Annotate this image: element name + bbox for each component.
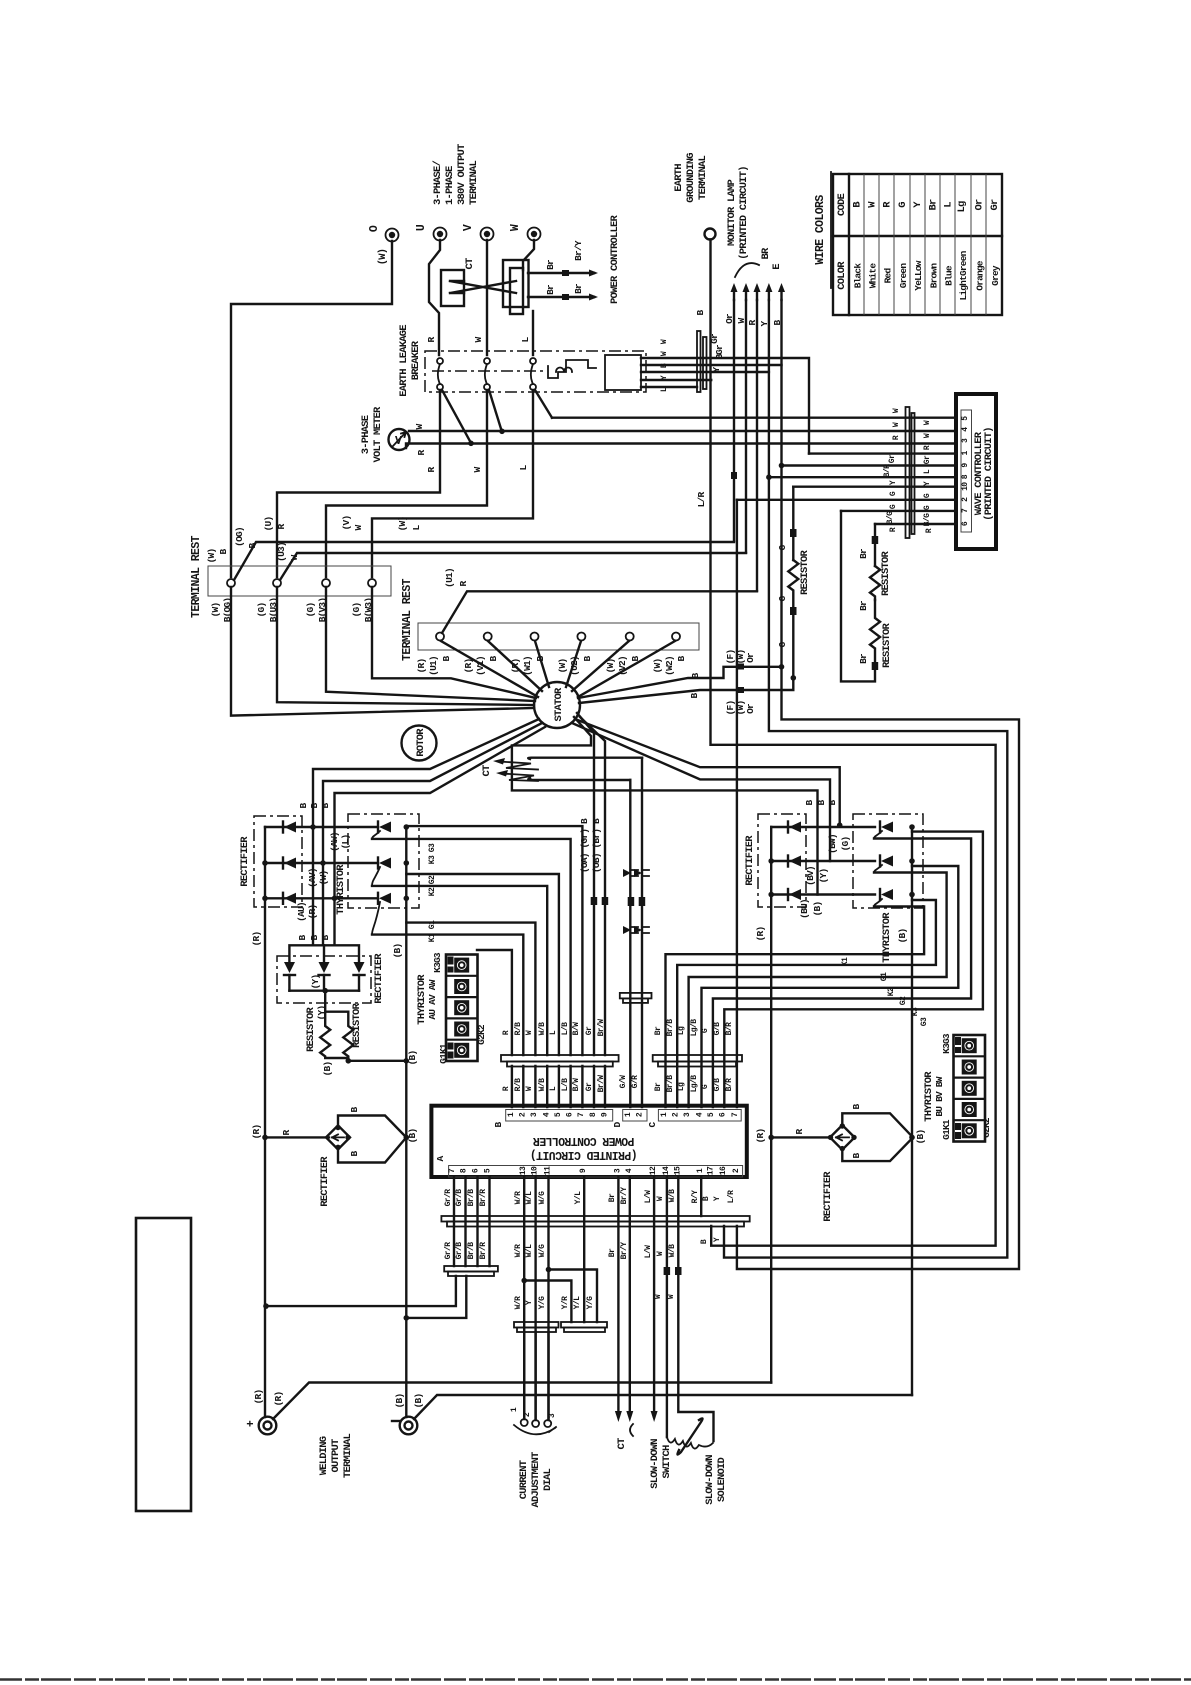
svg-text:Gr: Gr	[585, 1026, 594, 1035]
svg-text:COLOR: COLOR	[836, 261, 848, 290]
svg-text:1-PHASE: 1-PHASE	[444, 166, 456, 205]
svg-text:Br/R: Br/R	[479, 1242, 488, 1260]
svg-text:Brown: Brown	[929, 263, 940, 289]
connector cell 1	[454, 958, 469, 973]
terminal W	[528, 228, 541, 241]
svg-text:Grey: Grey	[990, 265, 1001, 286]
wire Br/Y pin4 to CT arrow	[629, 1177, 631, 1410]
stator winding leads to lugs	[441, 641, 538, 697]
wire V down to breaker	[486, 240, 488, 355]
wire CT G/R down to PCB D2	[641, 758, 643, 1107]
terminal rest 2 lug 2	[484, 633, 492, 641]
terminal O	[386, 229, 399, 242]
wave pin7 wire	[841, 510, 956, 512]
dial branch W/R to Y bar	[524, 1281, 571, 1323]
svg-text:15: 15	[674, 1166, 683, 1175]
field rectifier dash box	[277, 956, 371, 1003]
wave pin5 wire	[552, 417, 956, 419]
svg-text:EARTH: EARTH	[673, 164, 685, 192]
gate line G3 to PCB B6	[372, 839, 571, 1055]
svg-text:(B): (B)	[392, 944, 403, 959]
svg-text:B/R: B/R	[725, 1078, 734, 1091]
svg-text:3-PHASE: 3-PHASE	[360, 415, 372, 454]
svg-text:Lg/B: Lg/B	[690, 1075, 699, 1093]
svg-text:(L): (L)	[340, 835, 351, 850]
svg-text:(U3): (U3)	[276, 542, 287, 562]
svg-text:Lg: Lg	[956, 201, 968, 213]
svg-text:Lg/B: Lg/B	[690, 1019, 699, 1037]
svg-text:W/B: W/B	[668, 1189, 677, 1202]
thyristor connector K3G3 right squares	[954, 1035, 986, 1142]
wire O to terminal rest	[231, 241, 392, 577]
svg-text:(Y): (Y)	[316, 1006, 327, 1021]
svg-text:G/B: G/B	[713, 1078, 722, 1091]
resistor G zigzag	[788, 560, 798, 611]
svg-text:U: U	[415, 224, 428, 231]
diamond rectifier right R lead	[771, 1136, 829, 1138]
rectifier left dash box	[254, 816, 302, 907]
wire Y/L pin9	[583, 1177, 585, 1322]
connector cell 2	[454, 979, 469, 994]
svg-text:(AW): (AW)	[329, 832, 340, 852]
svg-text:W/B: W/B	[668, 1244, 677, 1257]
svg-text:(B): (B)	[915, 1130, 926, 1145]
current adjustment dial pins	[524, 1332, 548, 1419]
svg-text:TERMINAL: TERMINAL	[468, 160, 480, 205]
terminal rest 2 lug 5	[626, 633, 634, 641]
svg-text:K1: K1	[428, 933, 437, 942]
svg-text:Y/R: Y/R	[561, 1296, 570, 1309]
diamond right top loop	[842, 1113, 913, 1137]
svg-text:Br: Br	[858, 600, 869, 611]
svg-text:OUTPUT: OUTPUT	[330, 1439, 342, 1473]
svg-text:THYRISTOR: THYRISTOR	[335, 864, 347, 915]
wire (U1) R from lug1	[442, 591, 757, 633]
wave pin8 wire	[769, 476, 956, 478]
connector cell 3	[962, 1081, 977, 1096]
diamond rectifier left R lead	[265, 1136, 329, 1138]
svg-text:SWITCH: SWITCH	[661, 1445, 673, 1479]
wire monitor Y vertical to right side	[724, 300, 1007, 1258]
svg-text:(R): (R)	[307, 905, 318, 920]
wire W/B pin15 to solenoid	[678, 1177, 713, 1441]
blank note box left	[136, 1218, 191, 1511]
svg-text:Br/Y: Br/Y	[573, 240, 584, 261]
connector bar above PCB (B group)	[501, 1055, 619, 1062]
svg-text:(R): (R)	[755, 1129, 766, 1144]
wire breaker aux 5	[641, 386, 697, 388]
wire W phase down-left	[326, 390, 487, 577]
terminal rest 2 lug 1	[436, 633, 444, 641]
svg-text:K3: K3	[428, 855, 437, 864]
svg-text:Br: Br	[608, 1248, 617, 1257]
svg-text:W/G: W/G	[538, 1244, 547, 1257]
svg-text:380V OUTPUT: 380V OUTPUT	[456, 144, 468, 205]
svg-text:AU AV AW: AU AV AW	[427, 979, 438, 1019]
wire monitor W vertical	[745, 300, 747, 553]
svg-text:TERMINAL REST: TERMINAL REST	[190, 535, 203, 618]
svg-text:(W): (W)	[206, 549, 217, 564]
svg-text:Br/B: Br/B	[666, 1075, 675, 1093]
field rectifier bottom bus	[289, 990, 359, 992]
svg-text:Br/Y: Br/Y	[620, 1242, 629, 1260]
field diode 3	[354, 962, 365, 973]
terminal V	[481, 228, 494, 241]
stator lead to right rectifier BW	[575, 719, 840, 825]
diode D3 right rectifier	[771, 893, 875, 895]
wire from A bar to (R) bus	[266, 1276, 456, 1306]
field diode 2	[319, 962, 330, 973]
diamond right bottom loop	[842, 1137, 913, 1161]
wave pin10 wire to resistor chain	[793, 486, 956, 488]
wire lug1 TR1 to stator	[231, 587, 534, 716]
dial wires 13 10 11	[524, 1177, 548, 1420]
svg-text:CT: CT	[616, 1438, 628, 1450]
wave connector bars	[906, 407, 910, 538]
svg-text:Br: Br	[654, 1082, 663, 1091]
monitor lamp arc	[735, 263, 759, 277]
terminal rest 2 box	[418, 623, 699, 650]
svg-text:L: L	[943, 202, 955, 208]
thyristor S1 left	[379, 822, 391, 833]
svg-text:W/R: W/R	[514, 1296, 523, 1309]
svg-text:TERMINAL: TERMINAL	[697, 156, 709, 201]
svg-text:(BW): (BW)	[827, 834, 838, 854]
wire monitor B vertical to right side	[737, 300, 1019, 1269]
thyristor S1 right	[881, 822, 893, 833]
svg-text:(B): (B)	[407, 1051, 418, 1066]
svg-text:Gr/B: Gr/B	[455, 1242, 464, 1260]
CT secondary lines	[528, 758, 642, 759]
svg-text:BR: BR	[760, 247, 772, 260]
svg-text:13: 13	[519, 1166, 528, 1175]
svg-text:(B): (B)	[322, 1062, 333, 1077]
wire lug2 TR1 to stator	[277, 587, 534, 705]
svg-text:CODE: CODE	[836, 194, 848, 217]
svg-text:L/R: L/R	[727, 1190, 736, 1203]
breaker pole 1	[437, 358, 443, 364]
wire W pin14 to solenoid	[666, 1177, 668, 1437]
gate line G3 right (to PCB C1)	[666, 907, 925, 1108]
svg-text:Y/G: Y/G	[586, 1296, 595, 1309]
svg-text:BREAKER: BREAKER	[410, 340, 422, 380]
diamond left bottom loop	[338, 1137, 406, 1162]
stator	[534, 682, 580, 728]
connector cell 1	[962, 1038, 977, 1053]
svg-text:RECTIFIER: RECTIFIER	[822, 1171, 834, 1222]
svg-text:Gr: Gr	[888, 454, 897, 463]
svg-text:(G): (G)	[256, 603, 267, 618]
svg-text:(R): (R)	[755, 927, 766, 942]
svg-text:B/R: B/R	[725, 1022, 734, 1035]
resistor Br 1 zigzag	[870, 566, 880, 600]
thyristor left dash box	[348, 814, 419, 908]
connector cell 3	[454, 1000, 469, 1015]
svg-text:Red: Red	[883, 268, 894, 284]
PCB C pin strip	[658, 1110, 741, 1122]
svg-text:TERMINAL: TERMINAL	[342, 1434, 354, 1479]
wire L out of transformer to breaker	[532, 311, 534, 355]
A group connector bar	[444, 1266, 498, 1272]
monitor arrow Or	[733, 289, 735, 300]
svg-text:(BV): (BV)	[805, 866, 816, 886]
svg-text:Or: Or	[974, 199, 986, 211]
svg-text:Lg: Lg	[677, 1026, 686, 1035]
svg-text:(B): (B)	[394, 1394, 405, 1409]
svg-text:(W): (W)	[377, 249, 389, 266]
svg-text:BU BV BW: BU BV BW	[934, 1076, 945, 1116]
rectifier right dash box	[758, 814, 806, 907]
svg-text:(R): (R)	[251, 932, 262, 947]
svg-text:RECTIFIER: RECTIFIER	[239, 836, 251, 887]
PCB wires bar to board	[512, 1066, 605, 1107]
svg-text:G/B: G/B	[713, 1022, 722, 1035]
PCB A pin strip	[449, 1166, 743, 1178]
svg-text:SLOW-DOWN: SLOW-DOWN	[704, 1455, 716, 1505]
svg-text:16: 16	[719, 1166, 728, 1175]
wire (U3) W from lug2 to monitor W	[280, 553, 746, 580]
svg-text:+: +	[245, 1420, 258, 1427]
dial wiper arc	[514, 1425, 556, 1434]
svg-text:ROTOR: ROTOR	[415, 728, 427, 757]
wire R to PCB B1	[477, 950, 512, 1055]
stator lead to left rectifier AV	[323, 723, 542, 945]
svg-text:11: 11	[544, 1166, 553, 1175]
svg-text:Br: Br	[545, 284, 556, 295]
wire L phase down-left	[372, 390, 533, 577]
rotor	[402, 726, 437, 761]
svg-text:Gr: Gr	[989, 199, 1001, 211]
svg-text:STATOR: STATOR	[553, 687, 565, 722]
svg-text:(R): (R)	[251, 1125, 262, 1140]
wire U down to breaker	[429, 240, 440, 355]
terminal rest 2 lug 4	[577, 633, 585, 641]
svg-text:L/B: L/B	[561, 1022, 570, 1035]
wire breaker aux 2 (to monitor B)	[641, 364, 782, 366]
svg-text:W/L: W/L	[525, 1191, 534, 1204]
svg-text:K2: K2	[428, 887, 437, 896]
svg-text:K1: K1	[841, 957, 850, 966]
svg-text:W/G: W/G	[538, 1191, 547, 1204]
connector cell 4	[962, 1102, 977, 1117]
svg-text:(W): (W)	[557, 659, 568, 674]
gate line K1 right (bus tap to PCB C6)	[724, 832, 983, 1107]
junction dot BW	[837, 822, 843, 828]
wave pin2 wire	[737, 499, 956, 501]
CT coil zigzag arrows	[499, 762, 538, 770]
svg-text:(B): (B)	[812, 902, 823, 917]
svg-text:Br: Br	[608, 1193, 617, 1202]
resistor chain Br (wave pin6 to pin7)	[874, 524, 876, 566]
svg-text:VOLT METER: VOLT METER	[372, 406, 384, 463]
svg-text:G2: G2	[899, 996, 908, 1005]
svg-text:Br/R: Br/R	[479, 1189, 488, 1207]
svg-text:B/W: B/W	[572, 1078, 581, 1091]
svg-text:14: 14	[662, 1166, 671, 1175]
svg-text:Br/B: Br/B	[467, 1242, 476, 1260]
wire Br pin3 to CT arrow	[617, 1177, 619, 1410]
terminal rest 1 lug 4	[368, 579, 376, 587]
svg-text:Br/B: Br/B	[467, 1189, 476, 1207]
svg-text:SLOW-DOWN: SLOW-DOWN	[649, 1439, 661, 1489]
svg-text:(B): (B)	[407, 1129, 418, 1144]
svg-text:(R): (R)	[416, 659, 427, 674]
svg-text:RECTIFIER: RECTIFIER	[744, 835, 756, 886]
svg-text:SOLENOID: SOLENOID	[716, 1458, 728, 1503]
svg-text:R/B: R/B	[514, 1022, 523, 1035]
svg-text:G1K1: G1K1	[941, 1119, 952, 1140]
stator lead to left rectifier AU	[313, 719, 539, 945]
svg-text:Gr: Gr	[714, 344, 725, 355]
wire R phase down-left to terminal rest	[277, 390, 440, 577]
monitor arrow R	[756, 289, 758, 300]
svg-text:(W): (W)	[318, 871, 329, 886]
terminal rest 1 lug 3	[322, 579, 330, 587]
svg-text:Or: Or	[745, 652, 756, 663]
wire monitor R vertical	[756, 300, 758, 591]
svg-text:10: 10	[961, 482, 970, 491]
PCB B pin strip	[506, 1110, 613, 1122]
svg-text:(W): (W)	[210, 603, 221, 618]
earth leakage breaker box	[425, 351, 646, 392]
svg-text:(PRINTED CIRCUIT): (PRINTED CIRCUIT)	[530, 1148, 637, 1161]
svg-text:V: V	[462, 224, 475, 231]
svg-text:W/R: W/R	[514, 1191, 523, 1204]
terminal rest 1 box	[208, 566, 391, 596]
svg-text:White: White	[868, 263, 879, 289]
rectifier right bus (R)	[770, 827, 772, 1383]
breaker pole 3	[530, 358, 536, 364]
page bottom scan edge	[0, 1678, 1191, 1681]
terminal U	[434, 228, 447, 241]
svg-text:CURRENT: CURRENT	[518, 1460, 530, 1499]
gate line G2 to PCB B4	[372, 886, 547, 1055]
wire volt meter R to wave pin3	[406, 444, 956, 449]
svg-text:Br: Br	[545, 259, 556, 270]
svg-text:(BU): (BU)	[799, 899, 810, 919]
resistor field right	[325, 1012, 353, 1061]
svg-text:K3: K3	[911, 1007, 920, 1016]
svg-text:W/L: W/L	[525, 1244, 534, 1257]
wire resistors to (B) bus	[348, 1060, 406, 1062]
stator lead to left rectifier AW	[335, 727, 546, 945]
stator F winding lead 2	[579, 690, 793, 703]
svg-text:Br/Y: Br/Y	[620, 1187, 629, 1205]
svg-text:G: G	[897, 202, 909, 208]
wire welding - to right thyristor bus	[414, 1395, 912, 1419]
wire W into transformer	[523, 240, 534, 270]
breaker blade 2	[489, 390, 502, 432]
svg-text:EARTH LEAKAGE: EARTH LEAKAGE	[398, 325, 410, 397]
welding + terminal	[259, 1417, 277, 1435]
diode D2 right rectifier	[771, 860, 875, 862]
svg-text:(OG): (OG)	[234, 527, 245, 547]
transformer inner box	[510, 268, 523, 314]
svg-text:E: E	[771, 264, 783, 270]
dial branch W/G to Y bar	[549, 1270, 598, 1323]
wire (OG) B from lug1 to monitor Or	[234, 542, 734, 580]
svg-text:G3: G3	[428, 843, 437, 852]
svg-text:L/W: L/W	[644, 1190, 653, 1203]
svg-text:(AU): (AU)	[296, 902, 307, 922]
svg-text:(G): (G)	[305, 603, 316, 618]
resistor field left	[320, 991, 348, 1058]
svg-text:L/R: L/R	[696, 492, 707, 508]
svg-text:(Y): (Y)	[310, 975, 321, 990]
PCB D pin strip	[623, 1110, 647, 1122]
svg-text:W/B: W/B	[538, 1078, 547, 1091]
svg-text:3-PHASE/: 3-PHASE/	[432, 160, 444, 205]
svg-text:G1: G1	[428, 920, 437, 929]
breaker trip linkage dashed	[432, 370, 545, 372]
diode D3 left rectifier	[265, 897, 376, 899]
breaker aux box	[605, 355, 641, 390]
svg-text:CT: CT	[481, 765, 493, 777]
gate line G1 to PCB B2	[372, 935, 523, 1055]
svg-text:G2: G2	[428, 875, 437, 884]
svg-text:POWER CONTROLLER: POWER CONTROLLER	[609, 215, 621, 305]
svg-text:(Y): (Y)	[818, 869, 829, 884]
thyristor S2 left	[379, 858, 391, 869]
svg-text:(G): (G)	[351, 603, 362, 618]
svg-text:O: O	[368, 225, 381, 232]
svg-text:Br/W: Br/W	[597, 1019, 606, 1037]
svg-text:Br: Br	[573, 283, 584, 294]
svg-text:Lg: Lg	[677, 1082, 686, 1091]
svg-text:(AV): (AV)	[307, 868, 318, 888]
wire earth B down right side to PCB pin17	[711, 240, 996, 1246]
gate line K1 to PCB B3	[406, 923, 535, 1055]
svg-text:(W): (W)	[652, 659, 663, 674]
monitor connector bars	[697, 331, 701, 392]
diode D2 left rectifier	[265, 862, 376, 864]
thyristor S3 right	[881, 889, 893, 900]
diamond left top loop	[338, 1116, 406, 1138]
long connector bar under PCB	[441, 1216, 749, 1222]
connector cell 2	[962, 1060, 977, 1075]
svg-text:LightGreen: LightGreen	[958, 250, 969, 300]
svg-text:RESISTOR: RESISTOR	[799, 550, 811, 596]
CT cross coupling lines	[450, 281, 516, 293]
transformer outer box	[503, 260, 529, 307]
terminal rest 2 lug 3	[531, 633, 539, 641]
terminal rest 1 lug 1	[227, 579, 235, 587]
CT transformer box	[441, 270, 464, 306]
slow-down solenoid coil	[667, 1437, 713, 1449]
power controller lead 1	[528, 272, 594, 274]
svg-text:Y/G: Y/G	[538, 1296, 547, 1309]
terminal rest 2 lug 6	[672, 633, 680, 641]
wave pin6 wire	[875, 523, 956, 525]
svg-text:Br: Br	[654, 1026, 663, 1035]
svg-text:(R): (R)	[273, 1392, 284, 1407]
wire breaker aux 3 (to monitor Y)	[641, 371, 769, 373]
svg-text:W: W	[509, 224, 522, 231]
gate line K2 to PCB B5	[406, 874, 559, 1055]
svg-text:(B): (B)	[897, 929, 908, 944]
svg-text:Y/L: Y/L	[573, 1296, 582, 1309]
svg-text:R/B: R/B	[514, 1078, 523, 1091]
stator lead to right rectifier BV	[572, 723, 830, 861]
svg-text:R/Y: R/Y	[691, 1190, 700, 1203]
svg-text:B/R: B/R	[883, 464, 892, 477]
terminal rest 1 lug 2	[273, 579, 281, 587]
svg-text:17: 17	[707, 1166, 716, 1175]
breaker trip coil detail	[548, 360, 596, 378]
svg-text:12: 12	[649, 1166, 658, 1175]
svg-text:Gr/B: Gr/B	[455, 1189, 464, 1207]
breaker blade 1 to volt meter line	[442, 390, 471, 443]
